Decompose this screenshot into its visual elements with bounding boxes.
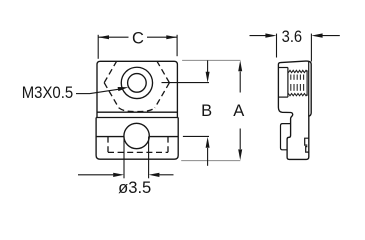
leader line slanted segment: [90, 89, 119, 93]
thread inner circle: [128, 74, 147, 93]
B bottom extension line: [183, 135, 209, 137]
thread right boundary: [306, 70, 308, 96]
svg-text:B: B: [201, 102, 212, 120]
A dimension top arrow tail: [239, 72, 241, 93]
C dimension left extension line: [97, 35, 99, 59]
B dimension top arrow tail: [207, 60, 209, 72]
side view far foot edge: [281, 124, 291, 150]
C dimension line left segment: [98, 36, 128, 38]
leader line horizontal segment: [76, 93, 90, 95]
B dimension bottom arrowhead: [206, 137, 210, 148]
svg-text:C: C: [132, 29, 144, 47]
3.6 dimension line right tail: [323, 35, 340, 37]
dia 3.5 left extension line: [123, 137, 125, 179]
front view lower block: [96, 118, 178, 160]
svg-text:M3X0.5: M3X0.5: [22, 84, 73, 102]
B dimension bottom arrow tail: [207, 148, 209, 166]
thread hatch verticals: [291, 75, 304, 91]
dia 3.5 left arrowhead: [113, 173, 124, 177]
step line left of pilot hole: [96, 136, 124, 138]
hexagon (dashed): [104, 61, 169, 111]
B top extension line: [162, 82, 210, 84]
C dimension line right segment: [147, 36, 177, 38]
dia 3.5 dimension line left segment: [78, 174, 113, 176]
C dimension right extension line: [176, 35, 178, 56]
side view inner right edge line: [308, 61, 310, 116]
C dimension left arrowhead: [98, 35, 109, 39]
svg-text:3.6: 3.6: [282, 27, 303, 46]
side view outline: [278, 61, 311, 159]
thread outer circle: [121, 67, 152, 98]
A dimension top arrowhead: [238, 60, 242, 71]
C dimension right arrowhead: [166, 35, 177, 39]
B dimension top arrowhead: [206, 72, 210, 83]
barbs on right edge: [305, 138, 309, 145]
3.6 left arrowhead: [265, 33, 276, 37]
A dimension bottom arrowhead: [238, 149, 242, 160]
dia 3.5 dimension line right segment: [159, 174, 173, 176]
A bottom extension line (gray): [181, 160, 240, 162]
3.6 dimension left extension line: [276, 34, 278, 58]
thread bottom sawtooth: [288, 94, 307, 96]
thread top sawtooth: [288, 70, 307, 72]
lower pilot circle: [124, 123, 149, 148]
svg-text:A: A: [233, 102, 244, 120]
3.6 dimension line left tail: [250, 35, 267, 37]
side view hex boss lines: [279, 67, 288, 69]
A top extension line (gray): [182, 59, 240, 61]
3.6 right arrowhead: [311, 33, 322, 37]
svg-text:ø3.5: ø3.5: [118, 178, 151, 197]
dia 3.5 right extension line: [148, 137, 150, 179]
hex boss bottom edge line: [97, 111, 177, 113]
leader arrowhead: [118, 87, 129, 91]
step line right of pilot hole: [149, 136, 178, 138]
front view upper block: [97, 61, 177, 117]
A dimension bottom arrow tail: [239, 129, 241, 150]
dia 3.5 right arrowhead: [149, 173, 160, 177]
3.6 dimension right extension line: [310, 34, 312, 62]
hidden slot (dashed): [108, 137, 168, 153]
